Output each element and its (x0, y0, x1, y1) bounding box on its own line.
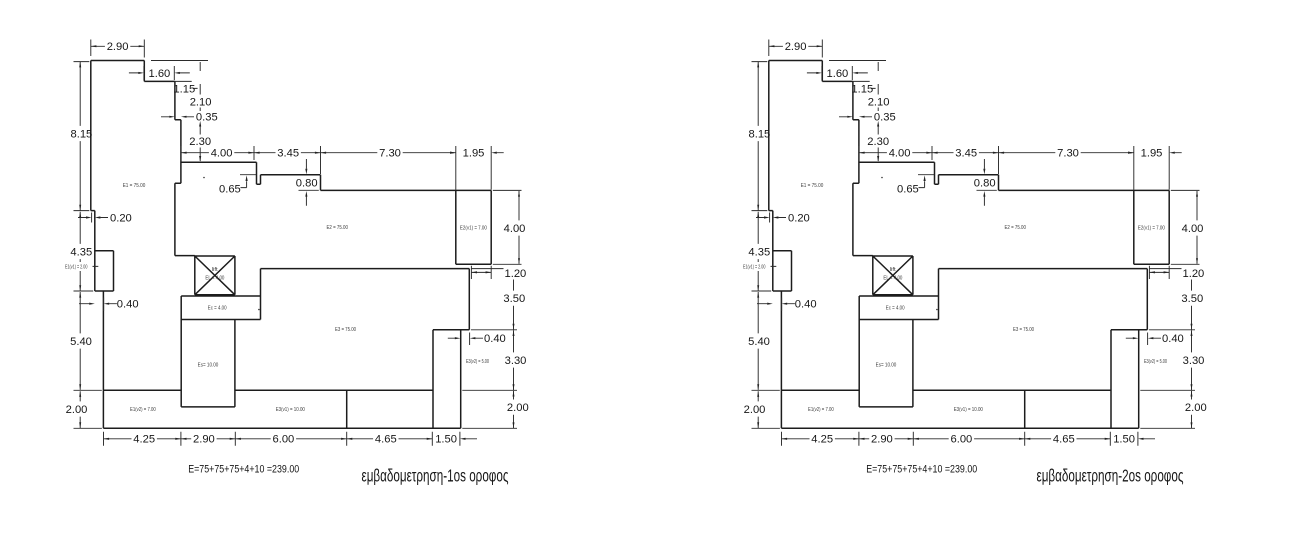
svg-text:0.35: 0.35 (196, 112, 218, 124)
svg-text:0.40: 0.40 (484, 333, 506, 345)
svg-text:E3(v2) = 5.00: E3(v2) = 5.00 (466, 359, 489, 365)
svg-text:1.95: 1.95 (463, 148, 485, 160)
svg-text:0.80: 0.80 (296, 178, 318, 190)
svg-text:1.15: 1.15 (173, 83, 195, 95)
svg-text:7.30: 7.30 (379, 148, 401, 160)
svg-text:E1(v2) = 7.00: E1(v2) = 7.00 (130, 407, 156, 413)
svg-text:4.25: 4.25 (133, 434, 155, 446)
svg-text:εμβαδομετρηση-1os οροφος: εμβαδομετρηση-1os οροφος (362, 466, 509, 486)
svg-text:E3(v1) = 10.00: E3(v1) = 10.00 (276, 407, 305, 413)
svg-text:3.50: 3.50 (503, 293, 525, 305)
svg-text:2.00: 2.00 (507, 402, 529, 414)
svg-text:0.40: 0.40 (117, 299, 139, 311)
svg-text:E1(v1) = 2.00: E1(v1) = 2.00 (65, 264, 88, 270)
svg-text:5.40: 5.40 (70, 336, 92, 348)
svg-text:lift: lift (212, 267, 219, 273)
svg-text:3.30: 3.30 (505, 355, 527, 367)
svg-text:4.35: 4.35 (70, 246, 92, 258)
svg-text:2.00: 2.00 (66, 404, 88, 416)
svg-text:1.20: 1.20 (505, 268, 527, 280)
svg-text:2.90: 2.90 (193, 434, 215, 446)
svg-text:Ec = 4.00: Ec = 4.00 (208, 306, 227, 312)
svg-text:2.90: 2.90 (107, 41, 129, 53)
svg-text:8.15: 8.15 (71, 128, 93, 140)
svg-text:Es= 10.00: Es= 10.00 (198, 363, 219, 369)
svg-text:E2 = 75.00: E2 = 75.00 (326, 225, 348, 231)
svg-text:E3 = 75.00: E3 = 75.00 (335, 327, 356, 333)
svg-text:6.00: 6.00 (273, 434, 295, 446)
svg-text:EL = 4.00: EL = 4.00 (205, 275, 224, 281)
svg-text:εμβαδομετρηση-2os οροφος: εμβαδομετρηση-2os οροφος (1037, 466, 1184, 486)
svg-text:E2(v1) = 7.00: E2(v1) = 7.00 (460, 226, 487, 232)
svg-text:2.30: 2.30 (189, 136, 211, 148)
svg-text:4.00: 4.00 (504, 223, 526, 235)
svg-text:4.00: 4.00 (211, 148, 233, 160)
svg-text:2.10: 2.10 (190, 96, 212, 108)
svg-text:E=75+75+75+4+10 =239.00: E=75+75+75+4+10 =239.00 (188, 464, 299, 476)
svg-text:1.50: 1.50 (435, 434, 457, 446)
svg-text:0.65: 0.65 (219, 183, 241, 195)
svg-text:3.45: 3.45 (277, 148, 299, 160)
svg-text:4.65: 4.65 (375, 434, 397, 446)
svg-text:1.60: 1.60 (149, 68, 171, 80)
svg-text:E1 = 75.00: E1 = 75.00 (123, 183, 146, 189)
svg-text:0.20: 0.20 (110, 212, 132, 224)
